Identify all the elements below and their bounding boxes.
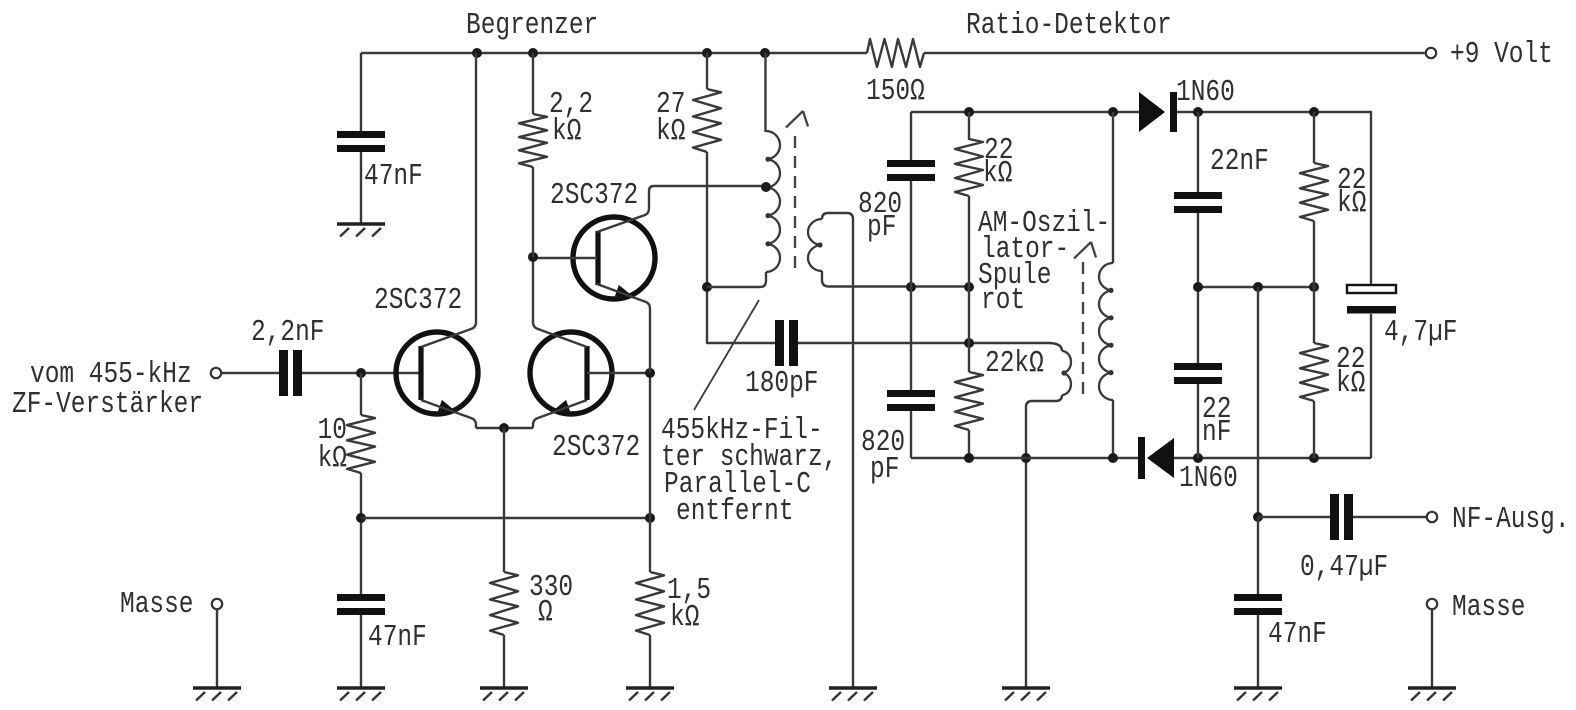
wire Q2 collector to Q3 base node <box>533 257 587 347</box>
node rail1-2.2k <box>528 48 538 58</box>
svg-text:Begrenzer: Begrenzer <box>466 9 598 43</box>
capacitor C8 22nF <box>1174 363 1222 370</box>
leader line 455kHz filter note <box>694 300 759 410</box>
svg-text:47nF: 47nF <box>368 621 427 655</box>
inductor L2 455kHz filter secondary <box>808 219 822 271</box>
resistor R2 2,2 kOhm <box>519 114 547 167</box>
wire mid row right <box>1198 286 1314 288</box>
wire Q2 base node down <box>649 373 651 572</box>
terminal NF-Ausg <box>1427 512 1437 522</box>
capacitor C9 4,7uF electrolytic <box>1347 285 1396 293</box>
wire +9V rail left segment <box>361 52 867 54</box>
wire shared emitter <box>476 427 533 429</box>
wire R4 to ground <box>649 635 651 688</box>
wire osc coil top lead <box>1112 112 1114 263</box>
node 22k-180pF wire <box>964 338 974 348</box>
diode D1 1N60 <box>1139 92 1165 132</box>
capacitor C1 47nF <box>337 131 385 138</box>
terminal vom 455-kHz ZF-Verstaerker <box>211 368 221 378</box>
svg-text:rot: rot <box>981 284 1025 318</box>
wire R3 to ground <box>503 635 505 688</box>
ground below coupling winding <box>1002 686 1050 690</box>
wire 2.2k to Q3 base node <box>532 167 534 257</box>
capacitor C4 180pF <box>775 320 784 366</box>
wire 47nF branch from rail <box>360 53 362 131</box>
node mid-22k <box>1309 282 1319 292</box>
resistor R7 22kOhm <box>955 372 983 430</box>
inductor L4 AM oscillator coil <box>1099 263 1113 400</box>
wire bottom rail left <box>911 457 1138 459</box>
inductor L3 coupling winding <box>1048 343 1062 351</box>
capacitor C6 820pF <box>887 390 935 397</box>
node rail1-27k <box>702 48 712 58</box>
ground top-left <box>337 222 385 226</box>
svg-text:2SC372: 2SC372 <box>552 431 640 465</box>
wire osc coil bottom lead <box>1112 400 1114 458</box>
wire 820pF branch top <box>910 112 912 160</box>
node rail2-22k <box>964 107 974 117</box>
svg-text:nF: nF <box>1202 416 1231 450</box>
dashed core osc coil <box>1082 262 1084 397</box>
wire Q1 collector to rail <box>421 53 476 347</box>
node coupling-bottom rail <box>1021 453 1031 463</box>
wire transformer primary top lead <box>764 53 766 132</box>
terminal Masse left <box>212 599 222 609</box>
capacitor C10 0,47uF <box>1330 494 1339 540</box>
wire C7 to mid row <box>1197 213 1199 287</box>
capacitor C11 47nF <box>1234 594 1282 601</box>
terminal +9 Volt <box>1426 48 1436 58</box>
wire R8 to mid <box>1313 221 1315 287</box>
svg-text:2,2nF: 2,2nF <box>251 316 324 350</box>
tuner arrow osc coil <box>1074 242 1091 259</box>
wire mid to R7 <box>968 287 970 372</box>
svg-text:0,47µF: 0,47µF <box>1300 551 1388 585</box>
ground below secondary <box>829 686 877 690</box>
svg-text:180pF: 180pF <box>745 367 818 401</box>
wire 820pF bottom to rail <box>910 411 912 458</box>
wire 22k-tr top lead <box>1313 112 1315 163</box>
node rail2-22nF <box>1193 107 1203 117</box>
wire mid row to C8 <box>1197 287 1199 363</box>
svg-text:kΩ: kΩ <box>552 115 581 149</box>
wire NF to C10 <box>1258 516 1330 518</box>
ground Masse right <box>1408 686 1456 690</box>
node rail1-transformer <box>760 48 770 58</box>
svg-text:2SC372: 2SC372 <box>550 179 638 213</box>
svg-text:47nF: 47nF <box>1268 618 1327 652</box>
svg-text:pF: pF <box>870 453 899 487</box>
wire C11 to ground <box>1257 615 1259 688</box>
svg-text:kΩ: kΩ <box>983 157 1012 191</box>
wire 2.2k top lead <box>532 53 534 114</box>
resistor R5 27 kOhm <box>693 89 721 152</box>
resistor 150 Ohm <box>867 39 924 67</box>
dashed core 455kHz filter <box>794 136 796 272</box>
ground below C3 <box>337 686 385 690</box>
wire R7 to bottom rail <box>968 430 970 458</box>
svg-text:Masse: Masse <box>120 588 193 622</box>
node 22k mid-left <box>964 282 974 292</box>
wire R9 to bottom rail <box>1313 401 1315 458</box>
svg-text:1N60: 1N60 <box>1179 462 1238 496</box>
node Q2 base junction <box>645 368 655 378</box>
capacitor C2 2,2nF <box>279 350 288 396</box>
node mid-22nF <box>1193 282 1203 292</box>
resistor R6 22 kOhm <box>955 139 983 196</box>
svg-text:1N60: 1N60 <box>1176 76 1235 110</box>
wire Q1 emitter corner <box>421 400 476 428</box>
svg-text:2SC372: 2SC372 <box>374 284 462 318</box>
wire secondary bottom lead <box>822 271 969 287</box>
svg-text:kΩ: kΩ <box>318 442 347 476</box>
resistor R4 1,5 kOhm <box>636 572 664 635</box>
tuner arrow 455kHz filter <box>786 111 803 128</box>
node 820pF mid <box>906 282 916 292</box>
node bottomrail-22k <box>964 453 974 463</box>
wire Q3 emitter down <box>597 284 650 373</box>
ground below R3 <box>480 686 528 690</box>
wire C10 to terminal <box>1353 516 1427 518</box>
node bottomrail-osccoil <box>1108 453 1118 463</box>
wire bias row <box>361 517 650 519</box>
wire Masse right to ground <box>1431 609 1433 688</box>
svg-text:47nF: 47nF <box>364 160 423 194</box>
svg-text:22kΩ: 22kΩ <box>985 347 1044 381</box>
wire +9V rail right segment <box>924 52 1426 54</box>
svg-text:kΩ: kΩ <box>1336 367 1365 401</box>
wire 22nF top lead <box>1197 112 1199 192</box>
diode D2 1N60 <box>1138 437 1145 479</box>
terminal Masse right <box>1427 599 1437 609</box>
resistor R1 10 kOhm <box>347 415 375 473</box>
wire 22k top lead <box>968 112 970 140</box>
wire C2 to Q1 base <box>302 372 421 374</box>
svg-text:Masse: Masse <box>1452 591 1525 625</box>
node rail2-osccoil <box>1108 107 1118 117</box>
node NF junction <box>1253 512 1263 522</box>
wire Q2 emitter corner <box>533 400 587 428</box>
node rail2-22k-right <box>1309 107 1319 117</box>
wire between 820pF caps <box>910 181 912 390</box>
wire ratio rail right <box>1177 111 1370 113</box>
node bottomrail-22k-right <box>1309 453 1319 463</box>
svg-text:4,7µF: 4,7µF <box>1384 316 1457 350</box>
wire Q2 base lead <box>587 372 650 374</box>
wire 10k top lead <box>360 373 362 415</box>
node 27k-primary bottom <box>702 282 712 292</box>
wire NF node to C11 <box>1257 517 1259 594</box>
resistor R9 22 kOhm <box>1300 343 1328 401</box>
inductor L1 455kHz filter primary <box>766 131 780 272</box>
wire 10k to 47nF <box>360 473 362 594</box>
capacitor C5 820pF <box>887 160 935 167</box>
svg-text:Ratio-Detektor: Ratio-Detektor <box>966 9 1172 43</box>
svg-text:kΩ: kΩ <box>1337 187 1366 221</box>
wire 180pF to coupling coil <box>798 342 1048 344</box>
svg-text:entfernt: entfernt <box>676 495 794 529</box>
resistor R3 330 Ohm <box>490 572 518 635</box>
node 10k-518wire <box>356 513 366 523</box>
node bottomrail-22nF <box>1193 453 1203 463</box>
capacitor C7 22nF <box>1174 192 1222 199</box>
svg-text:pF: pF <box>867 211 896 245</box>
svg-text:150Ω: 150Ω <box>866 75 925 109</box>
transistor Q2 2SC372 <box>530 332 612 414</box>
node bias-1.5k <box>645 513 655 523</box>
wire input to C2 <box>221 372 279 374</box>
wire NF tap down <box>1257 287 1259 517</box>
wire 27k down to 180pF wire <box>707 152 775 343</box>
wire Q3 base lead <box>533 257 597 259</box>
wire Q3 collector to transformer tap <box>597 186 764 232</box>
wire 4.7uF to bottom rail <box>1370 314 1372 458</box>
ground below C11 <box>1234 686 1282 690</box>
wire secondary top lead to ground line <box>822 213 853 688</box>
wire R6 to mid <box>968 196 970 287</box>
wire mid to R9 <box>1313 287 1315 343</box>
resistor R8 22 kOhm <box>1300 163 1328 221</box>
svg-text:NF-Ausg.: NF-Ausg. <box>1452 503 1570 537</box>
node emitters <box>499 423 509 433</box>
wire 47nF to ground <box>360 615 362 688</box>
transistor Q1 2SC372 <box>396 332 478 414</box>
svg-text:kΩ: kΩ <box>656 115 685 149</box>
svg-text:22nF: 22nF <box>1210 145 1269 179</box>
node primary tap collector <box>761 182 771 192</box>
wire ratio rail left <box>911 111 1139 113</box>
node input-10k junction <box>356 368 366 378</box>
svg-text:+9 Volt: +9 Volt <box>1450 38 1553 72</box>
capacitor C3 47nF <box>337 594 385 601</box>
node mid-NF <box>1253 282 1263 292</box>
transistor Q3 2SC372 <box>573 217 655 299</box>
svg-text:ZF-Verstärker: ZF-Verstärker <box>12 388 203 422</box>
wire C8 to bottom rail <box>1197 384 1199 458</box>
node rail1-Q1 <box>472 48 482 58</box>
ground Masse left <box>193 686 241 690</box>
wire 27k top lead <box>706 53 708 89</box>
ground below R4 <box>626 686 674 690</box>
wire primary bottom lead <box>707 272 766 287</box>
wire bottom rail right <box>1174 457 1371 459</box>
svg-text:kΩ: kΩ <box>670 601 699 635</box>
node Q3 base <box>528 252 538 262</box>
wire 47nF to ground <box>360 152 362 224</box>
wire 4.7uF branch top <box>1370 112 1371 285</box>
svg-text:Ω: Ω <box>538 596 553 630</box>
wire Masse left to ground <box>216 609 218 688</box>
wire emitter node down to R3 <box>503 428 505 572</box>
